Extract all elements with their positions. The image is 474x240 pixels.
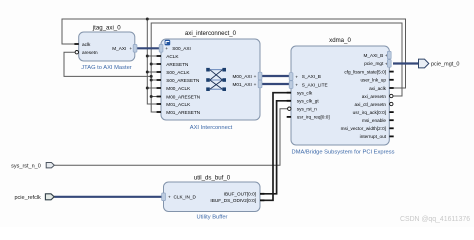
pin xdma S_AXI_LITE interface — [289, 81, 327, 89]
junction reset S00_ARESETN dot — [150, 79, 153, 82]
svg-text:jtag_axi_0: jtag_axi_0 — [92, 25, 121, 32]
junction reset M00_ARESETN dot — [150, 95, 153, 98]
svg-text:M00_ARESETN: M00_ARESETN — [166, 94, 200, 99]
junction clock M00_ACLK dot — [146, 87, 149, 90]
svg-text:+: + — [168, 195, 171, 200]
pin jtag M_AXI interface — [112, 45, 137, 53]
wire util_ds_buf.IBUF_OUT -> xdma.sys_clk_gt — [260, 101, 291, 194]
svg-text:JTAG to AXI Master: JTAG to AXI Master — [81, 65, 131, 71]
wire bus interconnect.M00_AXI -> xdma.S_AXI_B — [262, 75, 289, 77]
svg-text:Utility Buffer: Utility Buffer — [197, 215, 228, 221]
pin xdma axi_aresetn (active-low circle) — [362, 94, 393, 99]
pin util IBUF_OUT — [224, 192, 265, 197]
svg-text:AXI Interconnect: AXI Interconnect — [190, 125, 233, 131]
svg-text:M01_AXI: M01_AXI — [233, 82, 252, 87]
svg-text:axi_interconnect_0: axi_interconnect_0 — [185, 30, 237, 37]
svg-text:+: + — [295, 74, 298, 79]
block xdma_0 — [291, 37, 395, 156]
svg-text:util_ds_buf_0: util_ds_buf_0 — [194, 175, 231, 182]
svg-text:pcie_mgt_0: pcie_mgt_0 — [431, 61, 459, 67]
svg-text:S00_ARESETN: S00_ARESETN — [166, 78, 199, 83]
svg-text:S00_AXI: S00_AXI — [172, 46, 191, 51]
icon crossbar switch — [206, 68, 226, 91]
svg-text:CLK_IN_D: CLK_IN_D — [174, 195, 197, 200]
pin xdma sys_clk — [287, 91, 313, 96]
svg-text:sys_rst_n_0: sys_rst_n_0 — [11, 163, 41, 169]
pin xdma msi_vector_width — [341, 126, 394, 131]
pin interconnect ARESETN — [157, 62, 189, 67]
junction reset ARESETN dot — [150, 63, 153, 66]
svg-text:M_AXI: M_AXI — [112, 46, 126, 51]
svg-text:sys_clk: sys_clk — [297, 91, 313, 96]
pin xdma msi_enable — [362, 118, 394, 123]
wire bus port pcie_refclk -> util_ds_buf.CLK_IN_D — [54, 196, 161, 198]
pin xdma S_AXI_B interface — [289, 73, 321, 81]
svg-text:DMA/Bridge Subsystem for PCI E: DMA/Bridge Subsystem for PCI Express — [292, 150, 395, 156]
junction clock ACLK dot — [146, 55, 149, 58]
svg-text:xdma_0: xdma_0 — [329, 37, 351, 44]
svg-text:interrupt_out: interrupt_out — [360, 134, 387, 139]
svg-text:+: + — [295, 83, 298, 88]
pin interconnect S00_ARESETN — [157, 78, 200, 83]
svg-text:user_lnk_up: user_lnk_up — [360, 78, 386, 83]
svg-text:aresetn: aresetn — [82, 50, 98, 55]
wire axi_aclk net: xdma.axi_aclk -> top rail -> jtag.aclk — [62, 19, 406, 88]
pin xdma sys_clk_gt — [287, 99, 320, 104]
wire axi_aclk vertical branch to interconnect clock pins — [147, 19, 161, 104]
svg-text:CSDN @qq_41611376: CSDN @qq_41611376 — [400, 216, 470, 223]
block jtag_axi_0 — [79, 25, 135, 71]
svg-text:M00_AXI: M00_AXI — [233, 74, 252, 79]
wire axi_aresetn net: xdma.axi_aresetn -> rail B -> interconnect resets — [151, 23, 402, 112]
wire bus interconnect.M01_AXI -> xdma.S_AXI_LITE — [262, 83, 289, 85]
svg-text:S_AXI_B: S_AXI_B — [302, 74, 321, 79]
port sys_rst_n_0 — [11, 163, 54, 170]
svg-text:+: + — [165, 46, 168, 51]
pin interconnect M00_AXI interface — [233, 72, 262, 80]
pin interconnect M01_AXI interface — [233, 80, 262, 88]
block axi_interconnect_0 — [161, 30, 260, 131]
svg-text:M00_ACLK: M00_ACLK — [166, 86, 191, 91]
pin interconnect M01_ACLK — [157, 102, 192, 107]
junction clock rail dot — [146, 18, 149, 21]
pin xdma interrupt_out — [360, 134, 394, 139]
svg-text:+: + — [129, 46, 132, 51]
pin interconnect M00_ACLK — [157, 86, 192, 91]
pin util CLK_IN_D interface — [162, 193, 197, 201]
svg-text:M01_ACLK: M01_ACLK — [166, 102, 191, 107]
pin interconnect M00_ARESETN — [157, 94, 201, 99]
pin jtag aresetn (active-low circle) — [75, 50, 98, 55]
svg-text:ACLK: ACLK — [166, 54, 179, 59]
svg-text:M_AXI_B: M_AXI_B — [363, 53, 383, 58]
icon badge interconnect top-left — [165, 40, 171, 46]
pin xdma sys_rst_n (active-low circle) — [288, 107, 318, 112]
pin interconnect ACLK — [157, 54, 180, 59]
port pcie_refclk — [15, 194, 55, 201]
svg-text:msi_vector_width[2:0]: msi_vector_width[2:0] — [341, 126, 386, 131]
pin util IBUF_DS_ODIV2 — [210, 198, 264, 203]
pin xdma cfg_ltssm_state — [344, 69, 393, 74]
junction reset jtag branch dot — [150, 75, 153, 78]
svg-text:sys_clk_gt: sys_clk_gt — [297, 99, 320, 104]
wire sys_rst_n_0 -> xdma.sys_rst_n — [54, 109, 287, 166]
svg-text:aclk: aclk — [82, 42, 91, 47]
svg-text:usr_irq_ack[0:0]: usr_irq_ack[0:0] — [353, 110, 386, 115]
svg-text:+: + — [254, 82, 257, 87]
svg-text:cfg_ltssm_state[5:0]: cfg_ltssm_state[5:0] — [344, 69, 386, 74]
svg-text:IBUF_DS_ODIV2[0:0]: IBUF_DS_ODIV2[0:0] — [210, 198, 256, 203]
block util_ds_buf_0 — [164, 175, 261, 221]
svg-text:sys_rst_n: sys_rst_n — [297, 107, 317, 112]
svg-text:S00_ACLK: S00_ACLK — [166, 70, 190, 75]
wire aresetn branch to jtag.aresetn — [64, 52, 151, 76]
pin interconnect S00_ACLK — [157, 70, 191, 75]
svg-text:axi_ctl_aresetn: axi_ctl_aresetn — [354, 102, 386, 107]
wire util_ds_buf.IBUF_DS_ODIV2 -> xdma.sys_clk — [260, 93, 291, 201]
svg-text:+: + — [254, 74, 257, 79]
svg-text:IBUF_OUT[0:0]: IBUF_OUT[0:0] — [224, 192, 256, 197]
pin xdma M_AXI_B interface — [363, 51, 391, 59]
pin xdma axi_aclk — [369, 86, 394, 91]
wire bus jtag.M_AXI -> interconnect.S00_AXI — [137, 47, 160, 49]
pin xdma user_lnk_up — [360, 78, 393, 83]
port pcie_mgt_0 — [419, 59, 460, 68]
pin xdma axi_ctl_aresetn (active-low circle) — [354, 102, 393, 107]
wire bus xdma.pcie_mgt -> port pcie_mgt_0 — [393, 62, 419, 64]
pin xdma pcie_mgt interface — [364, 60, 391, 68]
svg-text:axi_aclk: axi_aclk — [369, 86, 387, 91]
pin xdma usr_irq_req — [287, 115, 330, 120]
junction clock S00_ACLK dot — [146, 71, 149, 74]
pin xdma usr_irq_ack — [353, 110, 394, 115]
svg-text:M01_ARESETN: M01_ARESETN — [166, 110, 200, 115]
svg-text:usr_irq_req[0:0]: usr_irq_req[0:0] — [297, 115, 330, 120]
svg-text:msi_enable: msi_enable — [362, 118, 386, 123]
svg-text:pcie_mgt: pcie_mgt — [364, 61, 384, 66]
svg-text:axi_aresetn: axi_aresetn — [362, 94, 387, 99]
svg-text:pcie_refclk: pcie_refclk — [15, 195, 42, 201]
svg-text:S_AXI_LITE: S_AXI_LITE — [302, 82, 328, 87]
svg-text:ARESETN: ARESETN — [166, 62, 188, 67]
pin interconnect S00_AXI interface — [159, 45, 191, 53]
pin jtag aclk — [74, 42, 91, 47]
pin interconnect M01_ARESETN — [157, 110, 201, 115]
